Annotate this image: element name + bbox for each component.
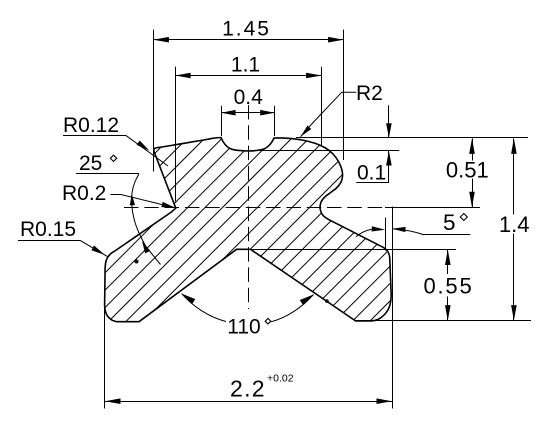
arrowhead leader R2 bbox=[301, 126, 312, 137]
svg-text:R0.2: R0.2 bbox=[62, 182, 106, 205]
svg-text:1.4: 1.4 bbox=[499, 212, 530, 237]
leader R0.12 bbox=[126, 135, 169, 166]
degree of 110 bbox=[265, 318, 271, 324]
arrowhead 0.1 bottom bbox=[386, 151, 392, 166]
svg-text:R2: R2 bbox=[356, 82, 383, 105]
arrowhead 1.1 left bbox=[175, 73, 191, 79]
degree symbol diamonds bbox=[110, 155, 467, 324]
arrowhead 1.45 left bbox=[153, 37, 169, 43]
svg-text:5: 5 bbox=[443, 210, 456, 235]
centerline horizontal bbox=[124, 207, 385, 209]
svg-text:R0.12: R0.12 bbox=[63, 114, 119, 137]
stub line 25deg bbox=[144, 244, 161, 265]
svg-text:1.1: 1.1 bbox=[231, 53, 260, 76]
extension lines 1.45 bbox=[153, 30, 155, 172]
profile outline of cross-section bbox=[105, 138, 392, 322]
dimension line 0.51 bbox=[472, 138, 474, 160]
arc 110deg left bbox=[182, 294, 226, 322]
extension line bottom face right bbox=[356, 320, 532, 322]
leader 5deg right bbox=[392, 229, 424, 235]
underline 25deg bbox=[76, 173, 139, 175]
arrowhead 5deg left bbox=[372, 226, 386, 231]
extension line centerline solid right bbox=[385, 207, 480, 209]
leader R0.2 tail bbox=[111, 194, 122, 196]
arrowhead 110deg left bbox=[182, 294, 196, 304]
svg-text:1.45: 1.45 bbox=[222, 18, 271, 41]
arrowhead 0.4 left bbox=[221, 110, 236, 116]
arrowhead 25deg arc upper bbox=[130, 194, 135, 206]
extension line notch bottom right bbox=[251, 150, 399, 152]
arc 25deg bbox=[132, 174, 148, 251]
arc 110deg right bbox=[271, 295, 314, 322]
dimension line 0.1 upper bbox=[388, 105, 390, 138]
svg-text:25: 25 bbox=[79, 152, 102, 175]
svg-text:2.2: 2.2 bbox=[230, 375, 266, 401]
arrowhead 0.4 right bbox=[260, 110, 275, 116]
svg-text:110: 110 bbox=[227, 316, 260, 339]
degree of 25 bbox=[110, 155, 116, 161]
arrowhead 0.1 top bbox=[386, 123, 392, 138]
arrowhead 0.51 bottom bbox=[469, 192, 475, 208]
svg-text:+0.02: +0.02 bbox=[267, 373, 294, 385]
extension lines 0.4 bbox=[221, 106, 223, 136]
dot marker right bbox=[325, 299, 329, 303]
leader 5deg left tail bbox=[356, 229, 372, 237]
extension line 2.2 left bbox=[104, 294, 106, 409]
dimension line 1.45 bbox=[153, 39, 343, 41]
hatching (section lines) bbox=[0, 120, 549, 340]
leader R0.15 underline bbox=[18, 240, 80, 242]
leader R0.12 underline bbox=[63, 135, 126, 137]
extension line 2.2 right / 5deg leg bbox=[392, 207, 394, 409]
arrowhead 1.4 top bbox=[511, 138, 517, 154]
arrowhead 0.55 top bbox=[445, 250, 451, 266]
svg-text:0.1: 0.1 bbox=[357, 162, 386, 185]
leader R0.2 bbox=[121, 195, 176, 208]
degree of 5 bbox=[460, 214, 467, 221]
extension line top face right bbox=[296, 137, 528, 139]
dimension line 1.4 bbox=[513, 138, 515, 214]
underline 0.1 bbox=[356, 182, 389, 184]
svg-text:0.55: 0.55 bbox=[423, 274, 473, 299]
5deg reference leg bbox=[385, 218, 387, 251]
arrowheads bbox=[91, 37, 516, 404]
arrowhead 1.45 right bbox=[328, 37, 344, 43]
leader R0.15 bbox=[80, 240, 108, 256]
leader R2 bbox=[301, 92, 357, 137]
extension line 0.55 top bbox=[251, 249, 457, 251]
arrowhead 25deg arc lower bbox=[142, 241, 150, 253]
arrowhead 5deg right bbox=[392, 227, 406, 232]
dimension line 0.55 bbox=[447, 250, 449, 275]
arrowhead 1.4 bottom bbox=[511, 305, 517, 321]
arrowhead 1.1 right bbox=[306, 73, 322, 79]
arrowhead 110deg right bbox=[300, 295, 314, 305]
arrowhead 0.55 bottom bbox=[445, 305, 451, 321]
arrowhead leader R0.2 bbox=[161, 202, 175, 208]
svg-text:R0.15: R0.15 bbox=[20, 218, 76, 241]
arrowhead leader R0.15 bbox=[91, 246, 104, 255]
arrowhead 2.2 left bbox=[105, 398, 121, 404]
centerline vertical bbox=[248, 105, 250, 309]
svg-text:0.51: 0.51 bbox=[446, 157, 489, 182]
svg-text:0.4: 0.4 bbox=[234, 86, 264, 109]
arrowhead leader R0.12 bbox=[137, 140, 150, 150]
extension lines 1.1 bbox=[175, 67, 177, 202]
dimension line 0.1 lower + leader bbox=[388, 151, 390, 182]
dimension line 0.4 bbox=[221, 112, 275, 114]
arrowhead 0.51 top bbox=[469, 138, 475, 154]
dot marker left bbox=[135, 260, 139, 264]
dimension line 2.2 bbox=[105, 401, 392, 403]
arrowhead 2.2 right bbox=[377, 398, 393, 404]
underline 5deg bbox=[424, 234, 470, 236]
dimension line 1.1 bbox=[175, 75, 322, 77]
